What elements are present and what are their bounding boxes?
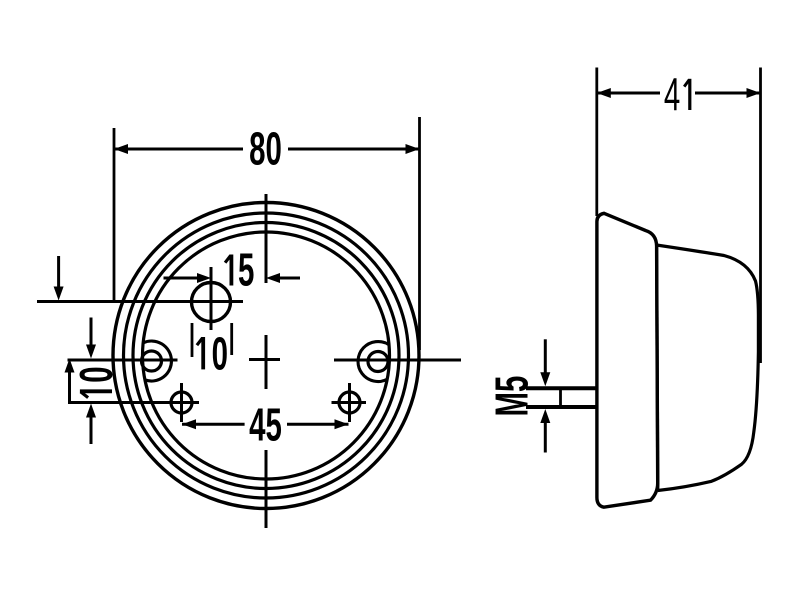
dim 80 dimension line left [114,144,243,154]
dim M5 rotated label [487,376,538,417]
dim 15 arrow right [266,273,300,283]
dim 41 dimension line right [695,88,761,98]
svg-text:4: 4 [664,70,680,121]
svg-text:M5: M5 [487,376,538,417]
dim M5 lower arrow [540,409,550,453]
vertical centerline middle segment [265,335,268,389]
horizontal centerline left segment [68,359,178,362]
top cable hole [192,283,231,322]
dim 80 right extension line [418,117,421,350]
M5 stud top line [526,386,598,390]
lower left hole vertical centerline [180,383,183,422]
dim 41 label [664,70,690,121]
dim 45 dimension line left [182,419,245,429]
dia 10 label [197,329,228,380]
dim 41 right extension line [759,68,762,364]
dia 10 left extension line [191,323,194,357]
lower right hole horizontal tick [332,401,367,404]
dim 10 lower arrow [86,404,96,445]
dim 10 rotated label [72,366,123,397]
dim 80 label [249,124,282,175]
lower right stud hole [339,392,360,413]
leader arrow to hole height line [54,256,64,301]
dim 45 label [249,400,282,451]
dim 10 connecting line with up arrowhead [65,359,75,404]
lamp rim circle 3 [133,223,399,489]
lamp base plate outline [597,213,658,507]
lower holes horizontal centerline [68,401,199,404]
svg-text:80: 80 [249,124,282,175]
bezel step line [657,246,658,490]
dim M5 upper arrow [540,339,550,386]
lens dome outline [657,245,759,491]
left mounting ear hole [142,351,162,371]
lamp rim circle 2 [124,213,409,498]
dim 15 label [225,245,254,296]
svg-text:5: 5 [238,245,254,296]
lower right hole vertical centerline [348,383,351,422]
M5 stud bottom line [526,405,598,409]
right mounting ear arc [358,342,389,382]
vertical centerline top segment [265,194,268,283]
horizontal centerline right segment [334,359,461,362]
dia 10 right extension line [230,323,233,355]
dim 41 dimension line left [597,88,660,98]
dim 45 dimension line right [287,419,349,429]
svg-text:0: 0 [212,329,228,380]
lower left stud hole [171,392,192,413]
svg-text:45: 45 [249,400,282,451]
right mounting ear hole [368,352,388,372]
top hole vertical centerline [210,267,213,330]
dim 10 upper arrow [86,318,96,359]
top hole horizontal centerline [37,300,243,303]
lamp lens inner circle [143,232,390,479]
dim 15 arrow left [164,273,212,283]
dim 80 left extension line [113,128,116,303]
vertical centerline bottom segment [265,450,268,528]
center cross tick [249,358,280,361]
M5 stud thread end line [559,387,562,409]
dim 80 dimension line right [288,144,420,154]
lamp outer rim circle [113,203,419,509]
dim 41 left extension line [595,68,598,217]
svg-text:0: 0 [72,366,123,382]
left mounting ear arc [143,341,171,381]
